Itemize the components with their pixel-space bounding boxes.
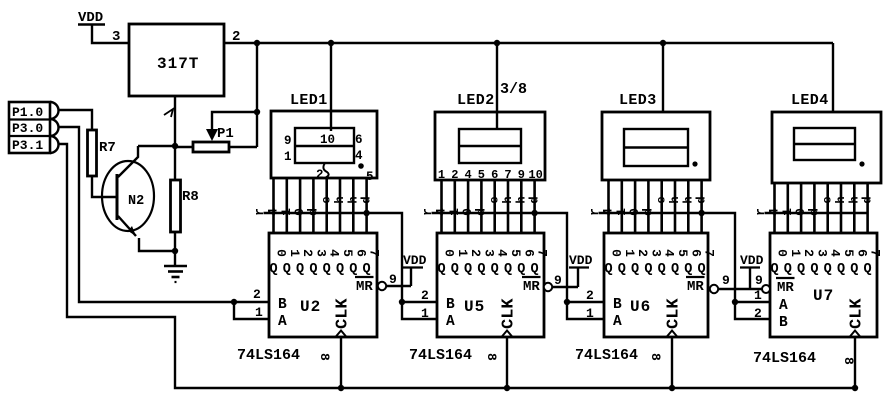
svg-text:P3.0: P3.0 (12, 121, 43, 136)
display body LED1 (271, 111, 377, 178)
svg-text:9: 9 (518, 168, 525, 182)
segment labels LED4 (753, 196, 875, 216)
junction adj node (172, 143, 178, 149)
wire clock P3.1 (58, 144, 855, 388)
IC U7 74LS164 (770, 233, 877, 337)
svg-text:0: 0 (442, 249, 457, 257)
svg-text:R7: R7 (99, 140, 116, 156)
pins A,B of U2 (278, 297, 287, 330)
svg-text:h: h (346, 196, 360, 203)
svg-text:Q: Q (504, 262, 512, 277)
svg-text:3: 3 (112, 29, 120, 45)
wire rail to LED2 (496, 43, 498, 112)
svg-text:Q: Q (309, 262, 317, 277)
segment labels LED1 (252, 196, 374, 216)
pin 9 (MR) (554, 273, 562, 288)
svg-text:h: h (834, 196, 848, 203)
wire rail to LED1 (330, 43, 332, 111)
connector J1 (P1.0 P3.0 P3.1) (9, 102, 59, 153)
LED4 internal digit (794, 128, 855, 160)
pin 2 (LED1 bottom) (316, 163, 329, 182)
wire VDD rail (top horizontal) (224, 42, 833, 44)
decimal point LED1 (358, 163, 364, 169)
svg-text:0: 0 (274, 249, 289, 257)
inversion bubble MR (710, 285, 718, 293)
wire bus LED2 to U5 (8 lines) (442, 180, 535, 233)
LED1 internal digit (295, 111, 354, 163)
pin MR of U7 (776, 278, 795, 296)
wire to U7 B/A (735, 302, 770, 319)
svg-text:MR: MR (687, 279, 704, 295)
pins Q0-Q7 of U7 (770, 249, 882, 277)
pins A,B of U5 (446, 297, 455, 330)
pins Q0-Q7 of U2 (269, 249, 381, 277)
svg-text:R8: R8 (182, 189, 199, 205)
wire P1.0 to R7 (58, 110, 92, 130)
svg-text:Q: Q (810, 262, 818, 277)
svg-text:1: 1 (421, 306, 429, 321)
label 74LS164 (U7) (753, 350, 816, 367)
svg-text:3/8: 3/8 (500, 81, 527, 98)
svg-text:U2: U2 (300, 298, 321, 316)
segment labels LED2 (420, 196, 542, 216)
svg-text:Q: Q (644, 262, 652, 277)
wire VDD to regulator input (92, 25, 129, 43)
pin MR of U5 (522, 277, 541, 295)
svg-text:2: 2 (468, 249, 483, 257)
svg-text:e: e (320, 196, 334, 203)
svg-text:7: 7 (702, 249, 717, 257)
wire CLK U7 to clock rail (854, 337, 856, 388)
svg-text:1: 1 (284, 150, 292, 164)
svg-text:9: 9 (722, 273, 730, 288)
pin 9 (LED1) (284, 134, 292, 148)
wire rail to LED4 (832, 43, 834, 112)
wire U5 Q7 serial out (432, 210, 568, 302)
wire U7 Q7 serial out (765, 212, 868, 214)
svg-text:h: h (501, 196, 515, 203)
svg-text:3: 3 (481, 249, 496, 257)
svg-text:A: A (779, 298, 788, 314)
pin CLK of U7 (848, 298, 867, 337)
svg-text:6: 6 (353, 249, 368, 257)
svg-text:0: 0 (609, 249, 624, 257)
svg-text:LED1: LED1 (290, 92, 328, 109)
wire collector to adj node (138, 145, 175, 147)
IC U2 74LS164 (269, 233, 377, 337)
pins Q0-Q7 of U5 (437, 249, 549, 277)
svg-text:MR: MR (523, 279, 540, 295)
svg-text:Q: Q (684, 262, 692, 277)
pin 5 (LED1 dp) (366, 170, 374, 184)
pin 9 (MR) (722, 273, 730, 288)
node VDD (stage 2) (569, 253, 593, 268)
label 74LS164 (U5) (409, 347, 472, 364)
svg-text:d: d (528, 196, 542, 203)
note 3/8 (500, 81, 527, 98)
decimal point LED3 (692, 161, 697, 166)
wire data P3.0 (58, 127, 269, 302)
pin 1 (LED1) (284, 150, 292, 164)
svg-text:1: 1 (754, 288, 762, 303)
inversion bubble MR U7 (762, 285, 770, 293)
svg-text:3: 3 (814, 249, 829, 257)
svg-text:4: 4 (495, 249, 510, 257)
pin 9 (MR U7) (755, 273, 763, 288)
pin CLK of U6 (665, 298, 684, 337)
display LED4 (791, 92, 829, 109)
transistor N2 (102, 146, 175, 251)
wire R7 to base (92, 176, 116, 197)
junction rail/LED1 (328, 40, 334, 46)
pins Q0-Q7 of U6 (604, 249, 716, 277)
pin 8 (CLK U6) (648, 353, 663, 361)
svg-text:5: 5 (841, 249, 856, 257)
svg-text:4: 4 (828, 249, 843, 257)
junction P1 wiper tap (254, 109, 260, 115)
inversion bubble MR (378, 282, 386, 290)
pin 6 (LED1) (355, 133, 363, 147)
wire 317T adj down (174, 96, 176, 146)
wire U6 Q7 serial out (599, 210, 736, 302)
svg-text:1: 1 (455, 249, 470, 257)
svg-text:1: 1 (586, 306, 594, 321)
svg-text:Q: Q (850, 262, 858, 277)
svg-text:LED4: LED4 (791, 92, 829, 109)
svg-text:d: d (695, 196, 709, 203)
LED3 internal digit (624, 129, 688, 166)
regulator 317T (129, 24, 224, 96)
svg-text:LED3: LED3 (619, 92, 657, 109)
pin 3 (317T input) (112, 29, 120, 45)
svg-text:h: h (514, 196, 528, 203)
svg-text:1: 1 (622, 249, 637, 257)
svg-text:h: h (668, 196, 682, 203)
svg-text:e: e (488, 196, 502, 203)
svg-text:Q: Q (283, 262, 291, 277)
svg-text:2: 2 (421, 288, 429, 303)
wire CLK U6 to clock rail (671, 337, 673, 388)
svg-text:2: 2 (300, 249, 315, 257)
svg-text:MR: MR (777, 280, 794, 296)
svg-text:2: 2 (451, 168, 458, 182)
IC U5 74LS164 (437, 233, 544, 337)
svg-text:U6: U6 (630, 298, 651, 316)
LED2 pin numbers 1 2 4 5 6 7 9 10 (438, 168, 543, 182)
svg-text:Q: Q (631, 262, 639, 277)
svg-text:Q: Q (824, 262, 832, 277)
svg-text:P1.0: P1.0 (12, 105, 43, 120)
pin 8 (CLK U7) (841, 357, 856, 365)
svg-text:VDD: VDD (403, 253, 427, 268)
svg-text:2: 2 (586, 288, 594, 303)
resistor R7 (88, 130, 116, 176)
svg-text:1: 1 (287, 249, 302, 257)
svg-text:10: 10 (528, 168, 542, 182)
wire U2 Q7 serial out (264, 210, 403, 302)
node P3.0 (connector row 2) (12, 121, 43, 136)
svg-text:Q: Q (269, 262, 277, 277)
svg-text:74LS164: 74LS164 (753, 350, 816, 367)
wire CLK U2 to clock rail (340, 337, 342, 388)
pin 1 (586, 306, 594, 321)
svg-text:Q: Q (363, 262, 371, 277)
svg-text:Q: Q (531, 262, 539, 277)
pin 2 (421, 288, 429, 303)
junction clock rail U7 (852, 385, 858, 391)
svg-text:5: 5 (508, 249, 523, 257)
svg-text:7: 7 (868, 249, 883, 257)
svg-text:Q: Q (671, 262, 679, 277)
svg-text:0: 0 (775, 249, 790, 257)
pin 9 (MR) (389, 272, 397, 287)
pin 8 (CLK U5) (484, 353, 499, 361)
pins A,B of U7 (779, 298, 788, 331)
junction serial data stage 3 (564, 299, 570, 305)
svg-text:3: 3 (648, 249, 663, 257)
svg-text:3: 3 (313, 249, 328, 257)
svg-text:Q: Q (837, 262, 845, 277)
display LED1 (290, 92, 328, 109)
pin 8 (CLK U2) (317, 353, 332, 361)
LED2 internal digit (459, 112, 521, 163)
potentiometer P1 (175, 126, 257, 152)
display LED2 (457, 92, 495, 109)
svg-text:h: h (847, 196, 861, 203)
pin 2 (754, 306, 762, 321)
svg-text:A: A (613, 314, 622, 330)
svg-text:Q: Q (658, 262, 666, 277)
svg-text:4: 4 (355, 149, 363, 163)
svg-text:VDD: VDD (569, 253, 593, 268)
svg-text:5: 5 (340, 249, 355, 257)
pin 10 (LED1 top) (320, 133, 335, 147)
svg-text:CLK: CLK (334, 298, 353, 329)
svg-text:4: 4 (662, 249, 677, 257)
svg-text:9: 9 (284, 134, 292, 148)
junction clock rail U6 (669, 385, 675, 391)
svg-text:9: 9 (389, 272, 397, 287)
node P3.1 (connector row 3) (12, 138, 43, 153)
junction clock rail U2 (338, 385, 344, 391)
ground (164, 251, 187, 282)
svg-text:B: B (278, 297, 287, 313)
svg-text:2: 2 (635, 249, 650, 257)
pin 1 (754, 288, 762, 303)
junction serial data stage 2 (399, 299, 405, 305)
svg-text:Q: Q (323, 262, 331, 277)
svg-text:LED2: LED2 (457, 92, 495, 109)
wire to U5 B/A (402, 302, 437, 319)
svg-text:e: e (821, 196, 835, 203)
svg-text:B: B (613, 297, 622, 313)
designator U2 (300, 298, 321, 316)
svg-text:7: 7 (535, 249, 550, 257)
junction serial data stage 4 (732, 299, 738, 305)
wire CLK U5 to clock rail (506, 337, 508, 388)
svg-text:Q: Q (437, 262, 445, 277)
svg-text:VDD: VDD (740, 253, 764, 268)
svg-text:10: 10 (320, 133, 335, 147)
wire VDD to MR (718, 268, 762, 289)
junction rail/LED2 (494, 40, 500, 46)
display body LED3 (602, 112, 710, 180)
pin MR of U6 (686, 277, 705, 295)
svg-text:1: 1 (255, 305, 263, 320)
svg-text:6: 6 (491, 168, 498, 182)
display body LED2 (435, 112, 545, 180)
pin MR of U2 (355, 277, 374, 295)
svg-text:CLK: CLK (848, 298, 867, 329)
svg-text:74LS164: 74LS164 (575, 347, 638, 364)
svg-text:5: 5 (675, 249, 690, 257)
pin 1 (U2 A) (255, 305, 263, 320)
svg-text:Q: Q (604, 262, 612, 277)
svg-text:74LS164: 74LS164 (409, 347, 472, 364)
wire VDD to MR (386, 268, 411, 286)
node VDD (top left supply) (78, 10, 105, 26)
svg-text:2: 2 (754, 306, 762, 321)
svg-text:Q: Q (336, 262, 344, 277)
svg-text:Q: Q (477, 262, 485, 277)
svg-text:CLK: CLK (665, 298, 684, 329)
svg-text:Q: Q (770, 262, 778, 277)
svg-text:e: e (655, 196, 669, 203)
wire rail to LED3 (662, 43, 664, 112)
svg-text:h: h (681, 196, 695, 203)
svg-text:Q: Q (296, 262, 304, 277)
svg-text:74LS164: 74LS164 (237, 347, 300, 364)
designator U6 (630, 298, 651, 316)
segment labels LED3 (587, 196, 709, 216)
inversion bubble MR (544, 283, 552, 291)
svg-text:1: 1 (438, 168, 445, 182)
svg-text:2: 2 (801, 249, 816, 257)
pin 1 (421, 306, 429, 321)
pin 4 (LED1) (355, 149, 363, 163)
svg-text:U5: U5 (464, 298, 485, 316)
pin 1 (317T adj) (164, 109, 173, 117)
wire bus LED1 to U2 (8 lines) (274, 178, 367, 233)
junction data A/B U2 (231, 299, 237, 305)
svg-text:h: h (333, 196, 347, 203)
svg-text:6: 6 (355, 133, 363, 147)
svg-text:Q: Q (517, 262, 525, 277)
wire wiper link (212, 112, 257, 129)
display LED3 (619, 92, 657, 109)
designator U5 (464, 298, 485, 316)
svg-text:Q: Q (464, 262, 472, 277)
pin CLK of U5 (500, 298, 519, 337)
svg-text:6: 6 (854, 249, 869, 257)
svg-text:2: 2 (316, 168, 324, 182)
junction clock rail U5 (504, 385, 510, 391)
svg-text:A: A (278, 314, 287, 330)
junction rail/P1 branch (254, 40, 260, 46)
wire VDD to MR (552, 268, 578, 287)
svg-text:9: 9 (755, 273, 763, 288)
svg-text:8: 8 (648, 353, 663, 361)
svg-text:B: B (446, 297, 455, 313)
svg-text:8: 8 (317, 353, 332, 361)
svg-text:7: 7 (504, 168, 511, 182)
svg-text:Q: Q (784, 262, 792, 277)
wire to U6 B/A (567, 302, 604, 319)
label 74LS164 (U2) (237, 347, 300, 364)
node VDD (stage 3) (740, 253, 764, 268)
node VDD (stage 1) (403, 253, 427, 268)
svg-text:MR: MR (356, 279, 373, 295)
pin 2 (586, 288, 594, 303)
svg-text:Q: Q (349, 262, 357, 277)
svg-text:A: A (446, 314, 455, 330)
IC U6 74LS164 (604, 233, 708, 337)
svg-text:9: 9 (554, 273, 562, 288)
pin CLK of U2 (334, 298, 353, 337)
svg-text:4: 4 (327, 249, 342, 257)
svg-text:Q: Q (864, 262, 872, 277)
svg-text:6: 6 (521, 249, 536, 257)
pin 2 (317T output) (232, 29, 240, 45)
svg-text:8: 8 (841, 357, 856, 365)
svg-text:4: 4 (464, 168, 471, 182)
svg-text:B: B (779, 315, 788, 331)
svg-text:d: d (360, 196, 374, 203)
pins A,B of U6 (613, 297, 622, 330)
svg-text:1: 1 (788, 249, 803, 257)
svg-text:2: 2 (253, 287, 261, 302)
pin 2 (U2 B) (253, 287, 261, 302)
svg-text:U7: U7 (813, 287, 834, 305)
svg-text:317T: 317T (157, 55, 199, 73)
svg-text:Q: Q (491, 262, 499, 277)
junction emitter/R8/gnd (172, 248, 178, 254)
svg-text:d: d (861, 196, 875, 203)
svg-text:P3.1: P3.1 (12, 138, 43, 153)
svg-text:CLK: CLK (500, 298, 519, 329)
label 74LS164 (U6) (575, 347, 638, 364)
svg-text:Q: Q (797, 262, 805, 277)
svg-text:5: 5 (478, 168, 485, 182)
display body LED4 (772, 112, 881, 183)
svg-text:Q: Q (618, 262, 626, 277)
wire bus LED3 to U6 (8 lines) (609, 180, 702, 233)
svg-text:Q: Q (451, 262, 459, 277)
svg-text:P1: P1 (217, 126, 234, 142)
svg-text:7: 7 (367, 249, 382, 257)
node P1.0 (connector row 1) (12, 105, 43, 120)
junction rail/LED3 (660, 40, 666, 46)
wire rail down to P1 (256, 43, 258, 147)
resistor R8 (171, 146, 199, 251)
svg-text:Q: Q (698, 262, 706, 277)
svg-text:8: 8 (484, 353, 499, 361)
designator U7 (813, 287, 834, 305)
svg-text:6: 6 (688, 249, 703, 257)
svg-text:N2: N2 (128, 194, 144, 209)
wire bus LED4 to U7 (8 lines) (775, 183, 868, 233)
wire to U2 pin A (234, 302, 269, 319)
decimal point LED4 (859, 161, 864, 166)
